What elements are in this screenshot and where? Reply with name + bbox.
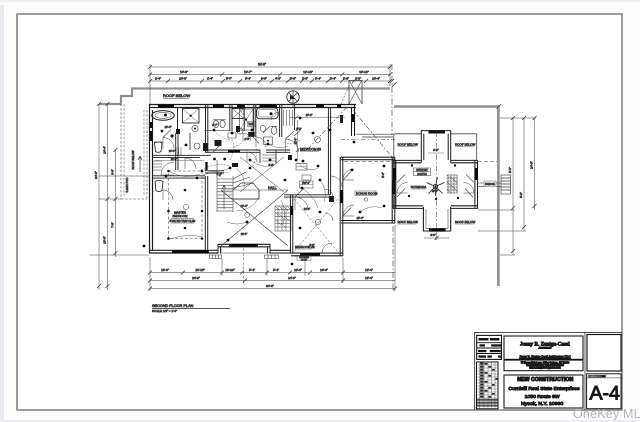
- sink bath1: [192, 125, 198, 131]
- seal box: [587, 335, 621, 372]
- bottom wall window black band left: [172, 250, 209, 253]
- svg-text:2'-8": 2'-8": [244, 137, 249, 141]
- wic shelves left: [153, 161, 162, 170]
- roofline right-wing gray edge horizontal: [394, 105, 500, 108]
- svg-text:14'-0": 14'-0": [288, 276, 296, 280]
- hall-master divider wall: [205, 171, 224, 173]
- svg-text:Jonny R. Zuniga Casal Architec: Jonny R. Zuniga Casal Architecture LLC: [520, 354, 571, 358]
- svg-text:BEDROOM: BEDROOM: [173, 214, 189, 218]
- svg-text:3'-4": 3'-4": [330, 77, 336, 81]
- svg-text:2'-4": 2'-4": [207, 77, 213, 81]
- svg-text:5'-4": 5'-4": [245, 77, 251, 81]
- dashed curtain lines upper band: [240, 118, 300, 144]
- svg-text:10'-7": 10'-7": [244, 70, 252, 74]
- svg-text:7'-1": 7'-1": [216, 173, 221, 177]
- black dot bath1: [170, 134, 173, 137]
- svg-text:34'-0": 34'-0": [258, 63, 266, 67]
- extra diagonal door leaves lower: [295, 172, 473, 217]
- hall small partition: [260, 150, 276, 163]
- bedroom2 dashed ceiling X: [294, 199, 338, 252]
- svg-text:Nyack, N.Y. 10960: Nyack, N.Y. 10960: [521, 401, 563, 407]
- wing left wall: [393, 160, 396, 208]
- title block left boundary: [474, 332, 476, 410]
- hall wall window black: [228, 150, 240, 153]
- wing ceiling fan: [427, 177, 445, 196]
- drawing number box: [587, 374, 621, 409]
- svg-text:10'-0": 10'-0": [169, 149, 176, 153]
- bath3 shower small: [264, 137, 273, 145]
- project box: [504, 375, 583, 408]
- wing door arcs: [397, 183, 408, 194]
- bath wall mid left: [176, 133, 178, 170]
- bedroom2 door arc: [295, 197, 308, 210]
- wardrobe arcs right wall: [325, 189, 333, 221]
- svg-text:5'-4": 5'-4": [273, 268, 279, 272]
- svg-text:5'x7'-6": 5'x7'-6": [302, 183, 310, 185]
- switch squiggles central: [227, 168, 285, 224]
- svg-text:24'-0": 24'-0": [192, 276, 200, 280]
- interior vertical dim bedroom3: [297, 120, 299, 160]
- bath3 sink: [260, 126, 266, 132]
- svg-text:16'-0": 16'-0": [161, 268, 169, 272]
- svg-text:10'-2": 10'-2": [171, 157, 178, 161]
- svg-text:2'-6": 2'-6": [302, 77, 308, 81]
- bottom dim drop lines: [149, 257, 151, 291]
- master bedroom walls: [205, 176, 207, 250]
- closet shelves right: [284, 110, 293, 126]
- hall lower band wall right: [266, 150, 290, 152]
- bedroom2 bottom wall: [291, 253, 343, 256]
- wing roof outline top: [394, 134, 478, 161]
- svg-text:SECOND FLOOR PLAN: SECOND FLOOR PLAN: [152, 304, 194, 308]
- shower bath1: [183, 109, 200, 124]
- wing label boxes: [414, 168, 431, 176]
- bedroom2 top wall: [284, 195, 330, 197]
- svg-text:NEW CONSTRUCTION: NEW CONSTRUCTION: [517, 377, 573, 383]
- svg-text:8' OK WD TRAY CLNG: 8' OK WD TRAY CLNG: [170, 220, 196, 223]
- architect box: [504, 336, 583, 371]
- revision table black cells: [478, 338, 501, 358]
- svg-text:14'-4": 14'-4": [103, 146, 107, 154]
- extra fixtures center hall: [296, 164, 307, 171]
- sill comb detail left: [210, 255, 279, 259]
- svg-text:10'-10": 10'-10": [225, 268, 234, 272]
- svg-text:1050 Route 9W: 1050 Route 9W: [525, 394, 560, 400]
- sink2 bath1: [194, 143, 200, 149]
- roofline upper-left stepped gray edge: [99, 89, 390, 105]
- svg-text:DRAWING NO.: DRAWING NO.: [589, 375, 603, 378]
- bridge ladder: [501, 175, 511, 194]
- bonus room right wall: [392, 157, 395, 223]
- svg-text:SCALE: 1/4" = 1'-0": SCALE: 1/4" = 1'-0": [152, 309, 177, 313]
- hall closet shelves: [262, 155, 276, 161]
- fan circle master: [183, 204, 188, 209]
- bridge label right: [484, 181, 496, 186]
- svg-text:24'-0": 24'-0": [530, 161, 534, 169]
- svg-text:16'-4": 16'-4": [365, 268, 373, 272]
- small black window marks interior: [207, 162, 292, 215]
- door arc bedroom3 right: [331, 176, 343, 187]
- interior dim line y117: [289, 116, 345, 118]
- closet WIC with X: [240, 109, 254, 130]
- bay jog right vertical: [268, 244, 271, 254]
- bath3 tub horizontal: [257, 108, 279, 119]
- bay window seat box: [221, 247, 270, 253]
- window black marks on top wall: [158, 104, 341, 107]
- hall sink niche: [228, 133, 236, 138]
- svg-text:10'-0": 10'-0": [241, 232, 248, 236]
- bath2 sink circle: [237, 128, 243, 134]
- svg-text:BONUS ROOM: BONUS ROOM: [356, 192, 378, 196]
- bay window black band: [229, 244, 258, 247]
- bay front wall: [218, 244, 270, 247]
- svg-text:ACETRA: ACETRA: [417, 173, 427, 176]
- door arcs mid-left: [161, 162, 174, 175]
- svg-text:5.9MC PVC: 5.9MC PVC: [125, 178, 129, 193]
- bonus door arcs: [343, 169, 354, 180]
- svg-text:16'-4": 16'-4": [365, 276, 373, 280]
- svg-text:2'-4": 2'-4": [155, 77, 161, 81]
- svg-text:10'-10": 10'-10": [195, 268, 204, 272]
- tub: [152, 111, 175, 121]
- main block left exterior wall: [150, 104, 153, 253]
- connect walls bridge: [478, 183, 501, 186]
- svg-text:2'-8": 2'-8": [355, 77, 361, 81]
- wing center dashed line: [436, 131, 438, 231]
- top dimension line row3: [150, 80, 390, 82]
- wing main top wall: [393, 160, 478, 162]
- bonus wing bottom dims: [343, 272, 395, 274]
- closet hatch dense: [275, 206, 291, 231]
- svg-text:BATH: BATH: [249, 123, 255, 126]
- svg-text:BRIDGE: BRIDGE: [485, 182, 495, 186]
- bath1 partition walls: [178, 104, 208, 152]
- bottom wall right of bay: [270, 250, 291, 253]
- small partition: [189, 133, 191, 150]
- svg-text:34'-0": 34'-0": [94, 171, 98, 179]
- leader squiggles: [204, 144, 382, 212]
- wing interior dashed roofline: [344, 161, 497, 163]
- svg-text:ROOF BELOW: ROOF BELOW: [131, 150, 135, 169]
- svg-text:COOP: COOP: [301, 259, 308, 261]
- svg-text:ROOF BELOW: ROOF BELOW: [163, 93, 190, 98]
- black niche near stairs: [232, 163, 238, 167]
- bedroom2 fixture circle: [315, 219, 320, 224]
- title block top boundary: [475, 332, 622, 334]
- bay jog left vertical: [218, 244, 221, 254]
- wing dots: [408, 195, 410, 197]
- main block right wall upper: [352, 104, 355, 136]
- svg-text:8'-0": 8'-0": [433, 148, 439, 152]
- svg-text:10'-10": 10'-10": [359, 70, 369, 74]
- top dimension line row2: [150, 74, 390, 76]
- extra arcs upper band: [243, 133, 251, 141]
- svg-text:7'-0": 7'-0": [111, 222, 115, 228]
- closet label box: [297, 256, 311, 261]
- small dark fixture blobs: [203, 143, 208, 151]
- svg-text:2'-8": 2'-8": [343, 77, 349, 81]
- svg-text:HALL: HALL: [268, 186, 277, 190]
- roof valley diagonal: [353, 110, 392, 157]
- dashed roof line above bonus: [341, 139, 395, 141]
- attic access rect: [302, 175, 311, 180]
- wing top dormer: [421, 130, 450, 162]
- bath3 door arcs: [256, 137, 266, 147]
- svg-text:ROOF BELOW: ROOF BELOW: [398, 220, 419, 224]
- svg-text:5'-7": 5'-7": [226, 77, 232, 81]
- wing scribble shelving: [447, 175, 459, 193]
- svg-text:OneKey MLS: OneKey MLS: [573, 407, 640, 421]
- svg-text:34'-0": 34'-0": [266, 284, 274, 288]
- gable dormer above right corner: [341, 80, 362, 104]
- svg-text:3'-6": 3'-6": [290, 77, 296, 81]
- svg-text:ANTHONY: ANTHONY: [416, 169, 428, 172]
- svg-text:5'-6": 5'-6": [519, 192, 523, 198]
- tray corner dots: [167, 170, 203, 240]
- bath2 partition: [205, 130, 231, 132]
- wing right wall: [475, 160, 478, 208]
- roofline right-wing gray edge vertical: [497, 106, 500, 287]
- bonus room bottom wall: [341, 221, 395, 224]
- svg-text:8'-0": 8'-0": [508, 167, 512, 173]
- svg-text:16'-0": 16'-0": [103, 236, 107, 244]
- main block top exterior wall: [149, 105, 356, 108]
- revision table: [477, 335, 502, 359]
- dormer window black: [429, 130, 446, 133]
- svg-text:Email: zuniga999@yahoo.com: Email: zuniga999@yahoo.com: [529, 367, 560, 369]
- squiggle leaders near stairs: [201, 165, 231, 175]
- tiny shelves right of toilet: [176, 147, 181, 155]
- bedroom2 door arc bottom: [322, 243, 332, 253]
- svg-text:5'-7": 5'-7": [212, 123, 217, 127]
- svg-text:3'-4": 3'-4": [315, 77, 321, 81]
- bath1 inner dim line: [155, 160, 204, 162]
- bath label box: [248, 122, 256, 127]
- bath2 right wall: [230, 104, 232, 131]
- hall upper wall: [205, 150, 260, 152]
- svg-text:3'-0": 3'-0": [261, 77, 267, 81]
- closet right wall: [254, 104, 256, 137]
- svg-text:3'-0": 3'-0": [111, 169, 115, 175]
- corridor walls to wing: [356, 134, 393, 137]
- title block mid vertical: [584, 333, 586, 411]
- bath1 bottom wall: [153, 155, 211, 157]
- svg-text:A-4: A-4: [590, 382, 621, 404]
- top dimension row1 ticks: [148, 65, 392, 69]
- bonus window right: [392, 180, 395, 194]
- svg-text:5'-0": 5'-0": [296, 127, 301, 131]
- top dimension row2 ticks: [148, 73, 392, 77]
- bath1 door arc: [163, 138, 174, 149]
- svg-text:16'-4": 16'-4": [306, 113, 313, 117]
- toilet mid-left: [155, 180, 163, 191]
- bath3 right wall: [280, 104, 282, 137]
- svg-text:10'-0": 10'-0": [164, 125, 171, 129]
- scan edge left strip: [0, 5, 4, 422]
- valley diagonals crossing: [307, 107, 347, 150]
- bedroom3 right wall: [328, 108, 330, 195]
- svg-text:16'-0": 16'-0": [320, 268, 328, 272]
- panel label box bedroom2: [300, 181, 314, 188]
- svg-text:16'-0": 16'-0": [432, 189, 439, 193]
- scan edge bottom strip: [0, 420, 640, 422]
- mid horizontal wall left: [153, 176, 205, 178]
- svg-text:12'-10": 12'-10": [303, 70, 313, 74]
- up arrow in stair: [222, 185, 226, 209]
- svg-text:ROOF BELOW: ROOF BELOW: [455, 143, 476, 147]
- top dimension line row1 total: [150, 66, 390, 68]
- svg-text:ARCHITECT: ARCHITECT: [539, 346, 552, 349]
- stairwell landing chamfer: [233, 183, 259, 199]
- dark blob bath3: [248, 132, 255, 137]
- left wall window marks: [150, 122, 152, 141]
- dim drop line left: [149, 64, 151, 104]
- bath2 shower top right: [232, 109, 244, 119]
- toilet bath1: [155, 142, 163, 152]
- svg-text:4'-0": 4'-0": [268, 163, 273, 167]
- svg-text:4'-0": 4'-0": [275, 77, 281, 81]
- dashdot setback line right of main block: [391, 64, 393, 135]
- left mid horizontal dim: [99, 198, 121, 200]
- wing bottom dormer bay: [423, 207, 450, 231]
- main block bottom exterior wall left part: [149, 250, 218, 253]
- bonus room top wall long: [341, 157, 395, 160]
- svg-text:BEDROOM #3: BEDROOM #3: [300, 148, 321, 152]
- dim drop line right: [389, 64, 391, 86]
- drop from north arrow: [292, 104, 294, 109]
- left dashed porch area: [121, 104, 147, 199]
- bedroom2 right wall: [340, 157, 343, 256]
- wing bottom wall: [393, 206, 478, 209]
- svg-text:ROOF BELOW: ROOF BELOW: [455, 220, 476, 224]
- linen door arc hall: [247, 152, 257, 162]
- svg-text:5'-4": 5'-4": [249, 268, 255, 272]
- bath2 toilet pair: [213, 120, 218, 127]
- svg-text:5'-0": 5'-0": [381, 172, 385, 178]
- bedroom3 door arc: [286, 139, 299, 152]
- wing window marks: [395, 168, 477, 180]
- drawing list cell marks: [477, 363, 498, 407]
- tick marks roofline corner: [497, 104, 502, 109]
- svg-text:6'-0": 6'-0": [430, 233, 435, 237]
- svg-text:PETREFADA: PETREFADA: [411, 185, 427, 189]
- window marks bedroom2 right wall: [340, 115, 343, 203]
- svg-text:10'-0": 10'-0": [294, 268, 302, 272]
- svg-text:16'-4": 16'-4": [372, 77, 380, 81]
- leader curves master: [170, 172, 202, 239]
- svg-text:16'-4": 16'-4": [356, 216, 363, 220]
- svg-text:3'-6": 3'-6": [309, 243, 314, 247]
- svg-text:12'-0": 12'-0": [304, 207, 311, 211]
- bedroom3 circle fixture: [315, 137, 321, 143]
- svg-text:16'-0": 16'-0": [180, 70, 188, 74]
- tick at top of dashdot: [390, 79, 394, 83]
- drawing list table: [477, 362, 499, 409]
- svg-text:ROOF BELOW: ROOF BELOW: [398, 143, 419, 147]
- closet shelf wall: [294, 104, 296, 130]
- dashdot line below bonus: [392, 226, 394, 290]
- arrow symbol left: [138, 156, 142, 172]
- bath3 toilet: [271, 127, 277, 135]
- svg-text:Jonny R. Zuniga-Casal: Jonny R. Zuniga-Casal: [520, 341, 570, 347]
- window mark right wall: [352, 114, 355, 122]
- top dimension row3 ticks: [148, 79, 392, 83]
- north arrow circle symbol: [287, 91, 299, 103]
- door leaves diagonal upper band: [163, 126, 301, 152]
- svg-text:Cornielli Real State Enterpri: Cornielli Real State Enterprises: [509, 386, 581, 392]
- scan edge top strip: [0, 0, 640, 2]
- svg-text:10'-0": 10'-0": [179, 77, 187, 81]
